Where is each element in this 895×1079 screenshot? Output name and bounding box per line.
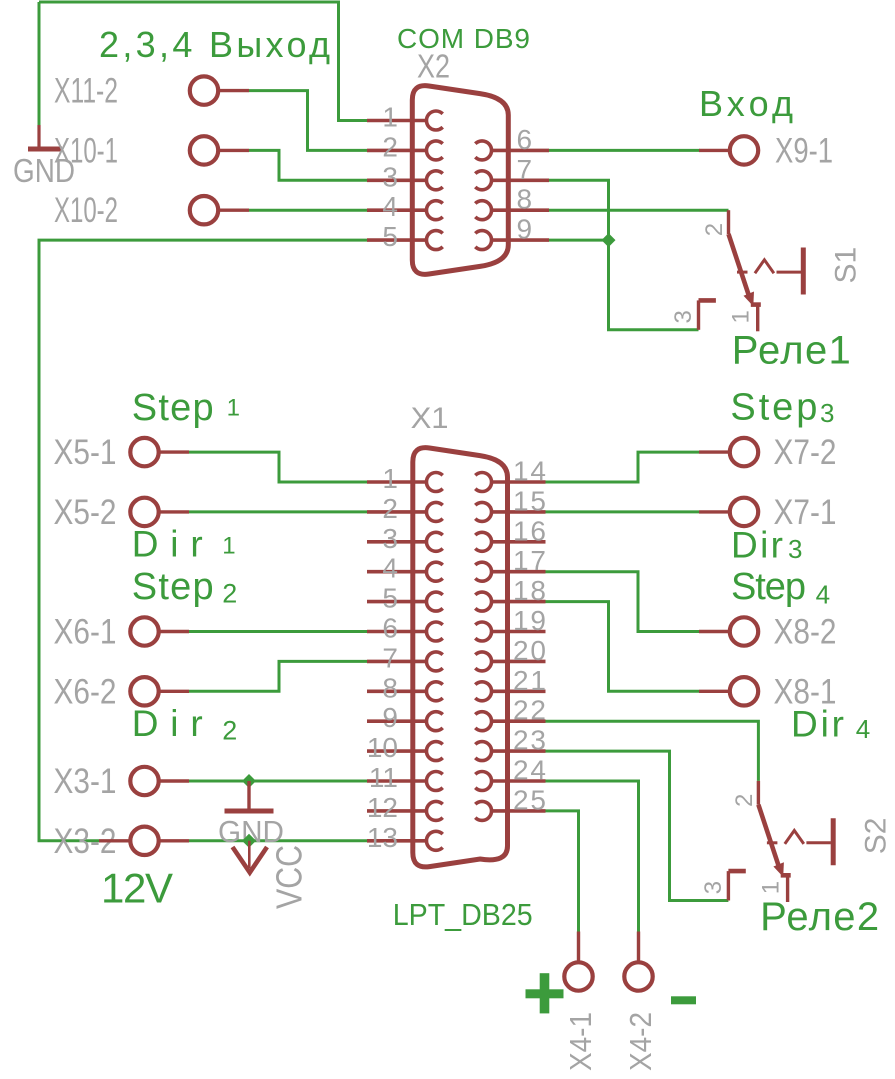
svg-text:LPT_DB25: LPT_DB25 [393, 897, 533, 932]
svg-text:X6-2: X6-2 [54, 672, 117, 711]
wire X5-2 to LPT pin 2 [189, 510, 367, 513]
svg-text:Step: Step [132, 387, 214, 429]
svg-text:4: 4 [856, 714, 870, 744]
terminal X8-1 [730, 677, 758, 705]
svg-text:2: 2 [382, 131, 398, 162]
svg-text:24: 24 [513, 755, 546, 786]
svg-text:1: 1 [222, 532, 235, 559]
wire LPT pin 17 to X8-2 [546, 572, 700, 632]
wire X10-2 to COM pin 4 [249, 209, 367, 212]
svg-text:Step: Step [132, 566, 214, 608]
svg-text:1: 1 [227, 395, 240, 422]
terminal X8-2 [730, 617, 758, 645]
wire COM pin 8 to relay S1 pin 2 [549, 209, 729, 212]
svg-text:16: 16 [513, 515, 546, 546]
terminal X5-2 [130, 498, 158, 526]
pin of X8-1 [699, 690, 730, 693]
svg-text:7: 7 [382, 642, 398, 673]
terminal X10-1 [190, 136, 218, 164]
pin of X5-2 [159, 510, 189, 513]
svg-text:3: 3 [382, 523, 398, 554]
svg-text:10: 10 [367, 732, 398, 763]
wire LPT pin 15 to X7-1 [546, 510, 700, 513]
svg-text:1: 1 [728, 310, 755, 323]
svg-text:X10-1: X10-1 [54, 131, 118, 170]
wire LPT pin 24 to X4-2 [546, 781, 639, 932]
wire COM pin 7/9 to relay S1 pin 3 [549, 180, 699, 329]
pin of X4-2 [637, 932, 640, 963]
wire LPT pin 14 to X7-2 [546, 452, 700, 482]
switch S2 button bar [831, 818, 836, 865]
pin of X6-2 [159, 690, 189, 693]
svg-text:3: 3 [788, 534, 802, 564]
wire X3-1 to LPT pin 11 [189, 780, 367, 783]
pin of X10-1 [218, 149, 249, 152]
wire LPT pin 25 to X4-1 [546, 811, 579, 932]
pin of X4-1 [577, 932, 580, 963]
svg-text:X3-1: X3-1 [54, 762, 117, 801]
wire X6-2 to LPT pin 7 [189, 661, 367, 691]
svg-text:Реле2: Реле2 [760, 895, 879, 939]
svg-text:X4-2: X4-2 [623, 1012, 658, 1071]
terminal X7-1 [730, 498, 758, 526]
svg-text:Step: Step [731, 566, 806, 608]
svg-text:X8-1: X8-1 [774, 672, 837, 711]
switch S2 blade [758, 805, 779, 869]
svg-text:X9-1: X9-1 [775, 131, 833, 170]
svg-text:11: 11 [369, 762, 398, 793]
wire COM pin 9 stub [549, 239, 609, 242]
ground GND mid symbol [225, 781, 274, 811]
pin of X9-1 [699, 149, 730, 152]
svg-text:Step: Step [730, 387, 817, 429]
terminal X10-2 [190, 196, 218, 224]
terminal X9-1 [730, 136, 758, 164]
svg-text:3: 3 [382, 161, 398, 192]
pin of X5-1 [159, 450, 189, 453]
svg-text:25: 25 [513, 784, 546, 815]
terminal X7-2 [730, 438, 758, 466]
svg-text:14: 14 [513, 456, 546, 487]
svg-text:2: 2 [382, 493, 398, 524]
svg-text:2: 2 [701, 223, 728, 236]
svg-text:X8-2: X8-2 [774, 613, 837, 652]
wire X6-1 to LPT pin 6 [189, 630, 367, 633]
plus symbol [526, 973, 564, 1013]
svg-text:2: 2 [222, 716, 237, 746]
junction on X3-2 net [242, 834, 256, 848]
svg-text:13: 13 [367, 822, 398, 853]
junction on pin 9 net [602, 233, 616, 247]
svg-text:5: 5 [382, 583, 398, 614]
switch S2 blade arrowhead [773, 862, 784, 877]
svg-text:3: 3 [700, 881, 727, 894]
terminal X6-2 [130, 677, 158, 705]
svg-text:8: 8 [517, 184, 533, 215]
switch S2 pin 2 lead [757, 781, 760, 805]
svg-text:4: 4 [816, 579, 830, 609]
svg-text:7: 7 [517, 154, 533, 185]
connector X2 DB9 body [412, 86, 508, 275]
switch S2 actuator dashes [767, 831, 831, 844]
connector X1 LPT body [413, 448, 508, 867]
switch S1 blade arrowhead [744, 292, 755, 307]
supply VCC arrow symbol [233, 841, 268, 873]
pin of X7-2 [699, 450, 730, 453]
terminal X6-1 [130, 617, 158, 645]
svg-text:18: 18 [513, 575, 546, 606]
svg-text:Реле1: Реле1 [732, 329, 851, 373]
terminal X3-2 [130, 827, 158, 855]
svg-text:9: 9 [382, 702, 398, 733]
svg-text:X4-1: X4-1 [563, 1012, 598, 1071]
wire COM pin 6 to X9-1 [549, 149, 700, 152]
svg-text:2: 2 [222, 578, 237, 608]
svg-text:Dir: Dir [132, 703, 203, 744]
pin of X7-1 [699, 510, 730, 513]
svg-text:S2: S2 [859, 817, 892, 854]
wire LPT pin 23 to relay S2 pin 3 [546, 751, 729, 900]
svg-text:21: 21 [513, 665, 546, 696]
switch S1 pin 3 contact [699, 300, 716, 329]
svg-text:X1: X1 [411, 402, 449, 435]
pin of X8-2 [699, 630, 730, 633]
pin of X6-1 [159, 630, 189, 633]
svg-text:1: 1 [757, 881, 784, 894]
pins X1 1-13 left [367, 473, 443, 851]
svg-text:X11-2: X11-2 [54, 72, 118, 111]
svg-text:X5-1: X5-1 [54, 433, 117, 472]
wire LPT pin 18 to X8-1 [546, 602, 700, 692]
svg-text:X2: X2 [417, 48, 450, 85]
pins X2 1-5 left [367, 111, 443, 250]
svg-text:2,3,4 Выход: 2,3,4 Выход [99, 24, 330, 65]
pin of X3-2 [159, 839, 189, 842]
wire X11-2 to COM pin 2 [249, 91, 367, 151]
svg-text:2: 2 [731, 794, 758, 807]
svg-text:23: 23 [513, 725, 546, 756]
terminal X5-1 [130, 438, 158, 466]
svg-text:S1: S1 [830, 247, 863, 284]
svg-text:8: 8 [382, 672, 398, 703]
wire LPT pin 22 to relay S2 pin 2 [546, 721, 759, 781]
minus symbol [671, 996, 696, 1004]
junction on X3-1 net [242, 774, 256, 788]
terminal X4-1 [564, 962, 592, 990]
terminal X4-2 [624, 962, 652, 990]
terminal X11-2 [190, 76, 218, 104]
svg-text:5: 5 [382, 221, 398, 252]
switch S1 pin 1 contact [751, 305, 761, 332]
svg-text:12: 12 [367, 792, 398, 823]
wire X10-1 to COM pin 3 [249, 150, 367, 180]
svg-text:1: 1 [382, 463, 398, 494]
svg-text:X5-2: X5-2 [54, 493, 117, 532]
wire COM pin 5 to left bus down to X3-2 [39, 240, 367, 841]
svg-text:X6-1: X6-1 [54, 613, 117, 652]
svg-text:19: 19 [513, 605, 546, 636]
switch S1 pin 2 lead [727, 210, 730, 234]
pin of X3-2 left [99, 839, 131, 842]
pin of X3-1 [159, 779, 189, 782]
wire X5-1 to LPT pin 1 [189, 452, 367, 482]
wire GND stub [38, 2, 41, 125]
svg-text:Dir: Dir [132, 524, 203, 565]
svg-text:9: 9 [517, 214, 533, 245]
svg-text:3: 3 [820, 398, 834, 428]
svg-text:20: 20 [513, 635, 546, 666]
svg-text:VCC: VCC [269, 845, 310, 909]
pin of X11-2 [218, 89, 249, 92]
pins X2 6-9 right [475, 141, 549, 250]
svg-text:6: 6 [382, 613, 398, 644]
svg-text:22: 22 [513, 695, 546, 726]
svg-text:4: 4 [382, 553, 398, 584]
svg-text:15: 15 [513, 485, 546, 516]
switch S1 actuator dashes [737, 260, 801, 273]
terminal X3-1 [130, 767, 158, 795]
svg-text:1: 1 [382, 102, 398, 133]
wire top net from GND to COM pin 1 [39, 2, 367, 121]
svg-text:X7-2: X7-2 [774, 433, 837, 472]
svg-text:6: 6 [517, 124, 533, 155]
switch S2 pin 3 contact [728, 871, 745, 900]
svg-text:X7-1: X7-1 [774, 493, 837, 532]
pins X1 14-25 right [475, 473, 545, 821]
svg-text:17: 17 [513, 545, 546, 576]
pin of X10-2 [218, 208, 249, 211]
svg-text:3: 3 [670, 310, 697, 323]
wire X3-2 to LPT pin 13 [189, 839, 367, 842]
svg-text:Вход: Вход [699, 83, 793, 124]
svg-text:4: 4 [382, 191, 398, 222]
ground GND top symbol [28, 125, 62, 149]
svg-text:X10-2: X10-2 [54, 191, 118, 230]
switch S1 blade [729, 234, 750, 298]
switch S2 pin 1 contact [781, 875, 791, 902]
switch S1 button bar [801, 248, 806, 295]
svg-text:12V: 12V [101, 864, 173, 911]
